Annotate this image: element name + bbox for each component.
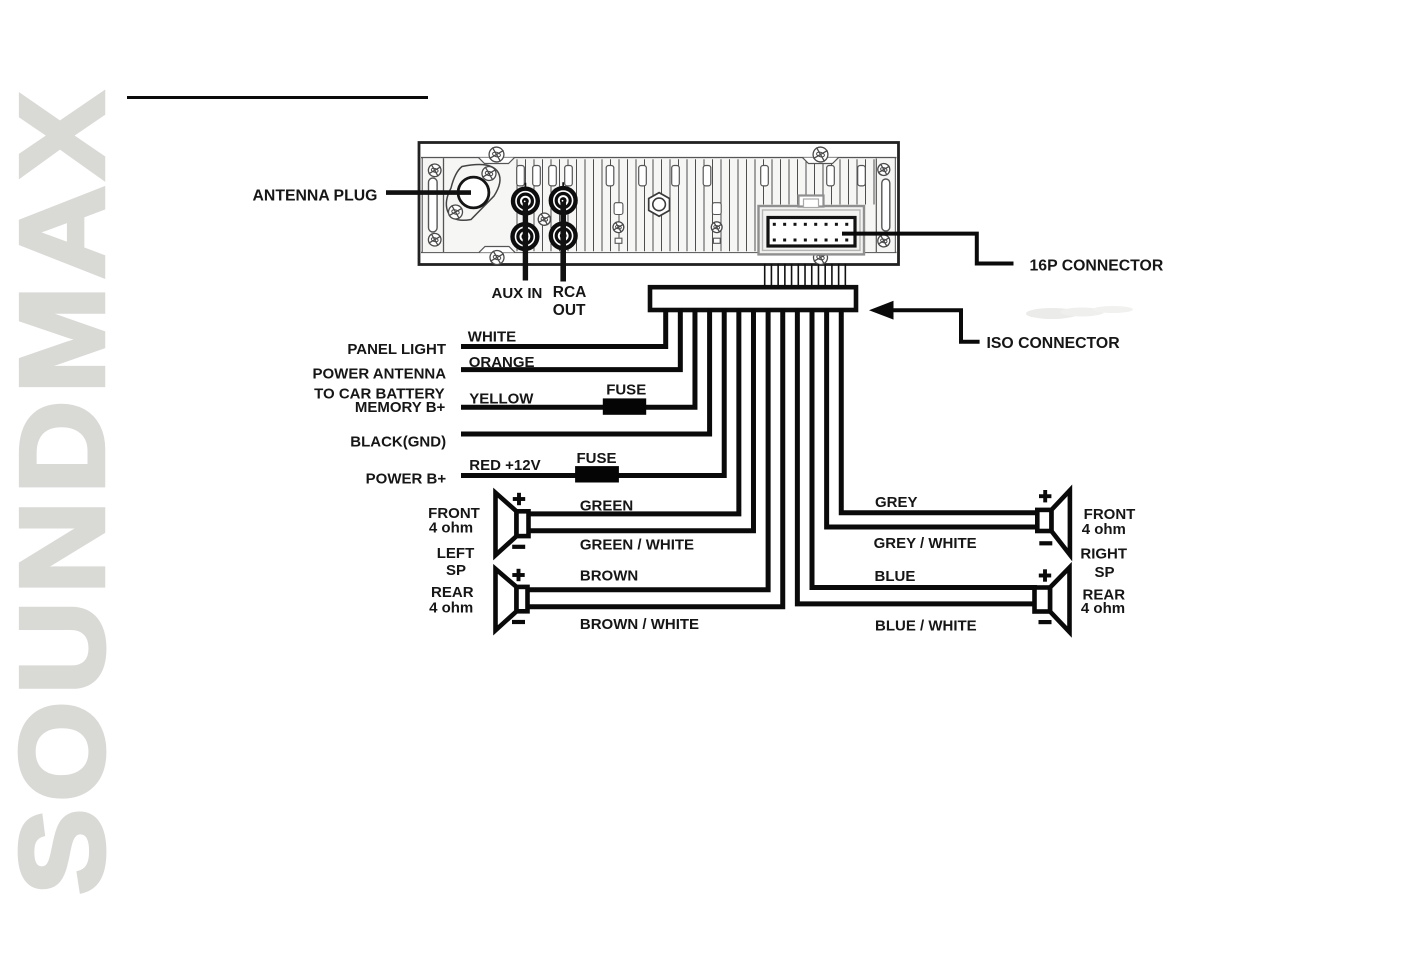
wire BLUE/WHITE (rear right -) bbox=[797, 309, 1037, 604]
wire YELLOW (memory B+) bbox=[461, 309, 695, 407]
label POWER ANTENNA bbox=[312, 365, 446, 382]
label TO CAR BATTERY bbox=[314, 386, 445, 403]
speaker rear-right bbox=[1035, 568, 1070, 633]
svg-text:RED +12V: RED +12V bbox=[469, 457, 540, 474]
svg-text:ANTENNA PLUG: ANTENNA PLUG bbox=[253, 188, 378, 205]
svg-text:PANEL LIGHT: PANEL LIGHT bbox=[347, 341, 446, 358]
label GREY bbox=[875, 494, 918, 511]
label MEMORY B+ bbox=[355, 399, 446, 416]
label OUT bbox=[553, 302, 586, 319]
label RIGHT SP bbox=[1080, 546, 1127, 581]
svg-text:FUSE: FUSE bbox=[577, 450, 617, 467]
svg-text:FUSE: FUSE bbox=[606, 382, 646, 399]
ISO arrow bbox=[869, 301, 980, 342]
label BLUE bbox=[875, 568, 916, 585]
RCA jack AUX-IN L bbox=[511, 187, 540, 216]
svg-text:AUX IN: AUX IN bbox=[492, 285, 543, 302]
label RCA bbox=[553, 284, 587, 301]
wire BLACK GND bbox=[461, 309, 710, 434]
svg-text:OUT: OUT bbox=[553, 302, 586, 319]
label FRONT 4ohm left bbox=[428, 505, 480, 537]
svg-text:MEMORY B+: MEMORY B+ bbox=[355, 399, 446, 416]
wire GREY (front right +) bbox=[841, 309, 1039, 513]
wire ORANGE (power antenna) bbox=[461, 309, 680, 370]
wire BROWN (rear left +) bbox=[526, 309, 768, 590]
wire GREY/WHITE (front right -) bbox=[827, 309, 1039, 527]
label REAR 4ohm right bbox=[1081, 586, 1125, 617]
svg-text:4 ohm: 4 ohm bbox=[1082, 521, 1126, 538]
svg-text:BLUE / WHITE: BLUE / WHITE bbox=[875, 618, 977, 635]
label LEFT SP bbox=[437, 545, 475, 579]
wire GREEN (front left +) bbox=[527, 309, 739, 514]
svg-text:BLUE: BLUE bbox=[875, 568, 916, 585]
label BROWN / WHITE bbox=[580, 616, 699, 633]
panel screw B bbox=[612, 221, 625, 234]
svg-text:YELLOW: YELLOW bbox=[469, 391, 534, 408]
head unit chassis bbox=[419, 143, 899, 265]
SOUNDMAX watermark bbox=[19, 56, 107, 924]
svg-text:GREY / WHITE: GREY / WHITE bbox=[874, 535, 977, 552]
svg-text:WHITE: WHITE bbox=[468, 328, 516, 345]
label BLACK(GND) bbox=[350, 434, 446, 451]
antenna plug socket bbox=[446, 165, 500, 221]
svg-text:RCA: RCA bbox=[553, 284, 587, 301]
panel screw A bbox=[537, 212, 552, 227]
title underline bbox=[127, 96, 428, 99]
RCA jack RCA-OUT R bbox=[549, 221, 578, 250]
wire BROWN/WHITE (rear left -) bbox=[526, 309, 783, 607]
16P ribbon wires bbox=[765, 264, 846, 294]
left mounting bracket bbox=[427, 158, 444, 252]
chassis screws bbox=[479, 145, 839, 266]
svg-text:4 ohm: 4 ohm bbox=[429, 599, 473, 616]
label ORANGE bbox=[469, 354, 535, 371]
fuse F2 bbox=[575, 466, 619, 482]
label FUSE 2 bbox=[577, 450, 617, 467]
svg-text:BROWN: BROWN bbox=[580, 567, 638, 584]
wire AUX lead bbox=[523, 203, 528, 281]
label ANTENNA PLUG bbox=[253, 188, 378, 205]
jack pins bbox=[525, 182, 563, 190]
label FRONT 4ohm right bbox=[1082, 506, 1136, 538]
svg-text:BROWN / WHITE: BROWN / WHITE bbox=[580, 616, 699, 633]
svg-text:RIGHT: RIGHT bbox=[1080, 546, 1127, 563]
label FUSE 1 bbox=[606, 382, 646, 399]
svg-text:GREY: GREY bbox=[875, 494, 918, 511]
svg-text:POWER B+: POWER B+ bbox=[366, 471, 447, 488]
heat-sink fins bbox=[423, 158, 895, 252]
hex nut bbox=[649, 193, 670, 217]
RCA jack RCA-OUT L bbox=[549, 186, 578, 215]
label ISO CONNECTOR bbox=[987, 335, 1121, 352]
label PANEL LIGHT bbox=[347, 341, 446, 358]
wire WHITE (panel light) bbox=[461, 309, 666, 347]
speaker rear-left bbox=[496, 569, 528, 631]
label BLUE / WHITE bbox=[875, 618, 977, 635]
label BROWN bbox=[580, 567, 638, 584]
label WHITE bbox=[468, 328, 516, 345]
label RED +12V bbox=[469, 457, 540, 474]
16P callout line bbox=[842, 234, 1014, 264]
ISO connector block bbox=[650, 287, 856, 310]
wire RED +12V (power B+) bbox=[461, 309, 724, 476]
svg-text:GREEN / WHITE: GREEN / WHITE bbox=[580, 537, 694, 554]
label AUX IN bbox=[492, 285, 543, 302]
svg-text:ORANGE: ORANGE bbox=[469, 354, 535, 371]
panel screw C bbox=[710, 221, 723, 234]
svg-text:BLACK(GND): BLACK(GND) bbox=[350, 434, 446, 451]
svg-text:4 ohm: 4 ohm bbox=[429, 520, 473, 537]
svg-text:SP: SP bbox=[1094, 564, 1114, 581]
label REAR 4ohm left bbox=[429, 584, 474, 616]
speaker front-left bbox=[496, 493, 529, 556]
label POWER B+ bbox=[366, 471, 447, 488]
label GREY / WHITE bbox=[874, 535, 977, 552]
right mounting bracket bbox=[876, 162, 891, 248]
antenna callout line bbox=[386, 190, 471, 195]
svg-text:GREEN: GREEN bbox=[580, 498, 633, 515]
svg-text:POWER ANTENNA: POWER ANTENNA bbox=[312, 365, 446, 382]
svg-text:ISO CONNECTOR: ISO CONNECTOR bbox=[987, 335, 1121, 352]
label 16P CONNECTOR bbox=[1030, 258, 1164, 275]
label GREEN bbox=[580, 498, 633, 515]
wire GREEN/WHITE (front left -) bbox=[527, 309, 753, 531]
svg-text:LEFT: LEFT bbox=[437, 545, 475, 562]
label GREEN / WHITE bbox=[580, 537, 694, 554]
svg-text:4 ohm: 4 ohm bbox=[1081, 600, 1125, 617]
16P connector (on unit) bbox=[759, 196, 865, 255]
wire RCA lead bbox=[560, 202, 566, 282]
fuse F1 bbox=[603, 398, 646, 414]
svg-text:16P CONNECTOR: 16P CONNECTOR bbox=[1030, 258, 1164, 275]
label YELLOW bbox=[469, 391, 534, 408]
scan artifact bbox=[1026, 306, 1133, 319]
wire BLUE (rear right +) bbox=[812, 309, 1037, 588]
RCA jack AUX-IN R bbox=[510, 222, 539, 251]
speaker front-right bbox=[1037, 490, 1070, 555]
svg-text:SP: SP bbox=[446, 562, 466, 579]
